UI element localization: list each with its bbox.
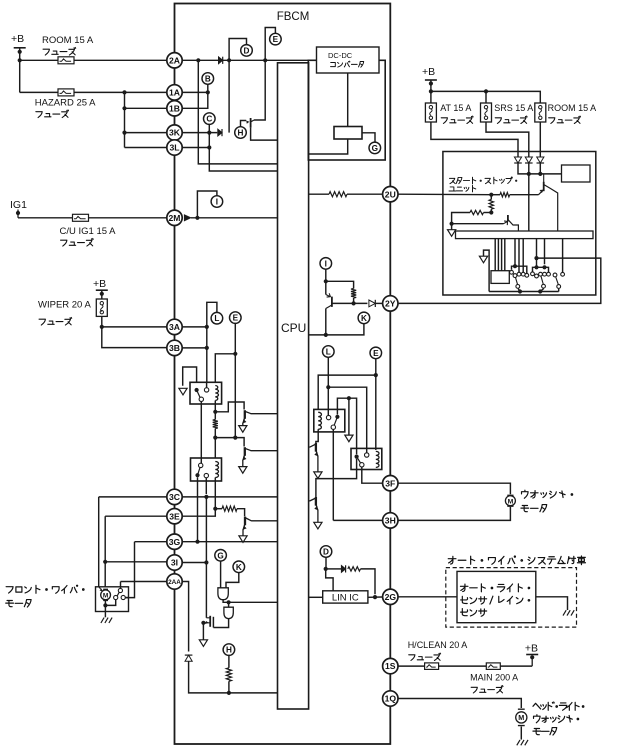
resistor R3 — [226, 668, 231, 682]
wire DC-DC to coil — [347, 73, 349, 127]
wire C rail down to CPU — [209, 133, 277, 171]
wire diode2 rail to bar — [528, 174, 530, 231]
wire to ground tri — [451, 224, 453, 230]
wire AT fuse to diode1 — [431, 122, 518, 157]
wire 2U into unit — [398, 193, 491, 196]
junction E branch — [374, 373, 378, 377]
wire relay1 common to ground hook — [183, 367, 197, 386]
wire to relay1 coil — [215, 354, 235, 383]
wire 3E inner — [182, 509, 215, 517]
svg-text:1A: 1A — [169, 88, 180, 98]
resistor R5 — [351, 289, 356, 299]
wire motor ground — [104, 605, 106, 617]
wire 3G left to motor switch — [135, 541, 167, 543]
wire R4 to 2U — [347, 193, 383, 195]
connector pin 1S — [383, 658, 398, 673]
wire source to ground — [202, 623, 204, 640]
svg-text:3F: 3F — [385, 478, 395, 488]
IG1 supply — [10, 199, 27, 218]
wire relay1 NC to relay2 — [200, 402, 202, 464]
label fuse katakana SRS — [495, 116, 527, 123]
svg-text:3E: 3E — [169, 511, 180, 521]
label fuse (katakana) HAZARD — [36, 110, 69, 118]
wire hook to E — [265, 28, 275, 61]
relay box (start-stop unit) — [562, 165, 591, 182]
wire E to coil A — [318, 375, 376, 409]
svg-text:+B: +B — [422, 66, 435, 78]
svg-text:3A: 3A — [169, 322, 180, 332]
wire Q1 emitter to CPU — [251, 128, 278, 141]
wire arm3 to rail — [558, 289, 560, 292]
switch cluster S2 contacts — [510, 270, 529, 277]
ground (Q2 emitter) — [239, 426, 247, 433]
connector pin 3A — [167, 319, 182, 334]
wire R3 to bottom bus — [228, 681, 230, 693]
+B supply (right fuses) — [422, 66, 437, 86]
transistor Q8 (unit) — [504, 215, 519, 231]
wire G to buffer1 — [220, 561, 222, 588]
transistor Q3 (relay2 driver) — [243, 447, 251, 466]
svg-text:1S: 1S — [385, 661, 396, 671]
svg-text:DC-DC: DC-DC — [328, 51, 353, 60]
junction 2Y tap — [534, 256, 538, 260]
junction bracket s2a — [534, 265, 538, 269]
wire bar to connector box 2 — [497, 239, 499, 271]
svg-text:1B: 1B — [169, 103, 180, 113]
wire RY2 pivot to 3G — [197, 477, 199, 541]
wire 3E/3I to motor — [104, 562, 106, 587]
relay RY1 contacts — [195, 388, 209, 402]
junction base node Q8 — [450, 222, 454, 226]
wire arm to rail — [518, 289, 520, 292]
svg-text:2G: 2G — [385, 592, 397, 602]
svg-text:K: K — [236, 563, 242, 572]
ground (unit) — [448, 230, 456, 237]
connector pin 3H — [383, 513, 398, 528]
wire 2AA rail to bottom bus — [189, 661, 278, 693]
relay RYB (washer) — [351, 448, 382, 469]
wire +B down to 1A row — [19, 48, 21, 93]
connector pin 1B — [167, 101, 182, 116]
junction I node — [324, 279, 328, 283]
motor M1 (front wiper) — [99, 587, 111, 601]
connector pin 1Q — [383, 691, 398, 706]
svg-text:3L: 3L — [169, 143, 179, 153]
label auto wiper system — [448, 556, 585, 565]
relay coil box (DC-DC) — [334, 127, 362, 140]
junction 2U/R7 — [489, 193, 493, 197]
svg-text:H: H — [226, 646, 232, 655]
wire E down to coil node — [234, 323, 236, 353]
svg-text:D: D — [244, 46, 250, 55]
wire bar drop s1-3 — [522, 239, 524, 272]
FBCM module outline — [175, 4, 391, 745]
wire I down — [325, 269, 327, 294]
ground (QA emitter) — [314, 472, 322, 479]
svg-text:2Y: 2Y — [385, 299, 396, 309]
node B — [202, 73, 214, 85]
wire D down — [325, 557, 327, 569]
wire bar drop s2b — [544, 239, 546, 265]
CPU block — [278, 63, 309, 709]
arrow on 2M line — [184, 215, 191, 221]
switch S3 arm — [541, 276, 543, 284]
wire 3I left — [105, 561, 167, 563]
wire E down to coil B — [375, 359, 377, 450]
junction C/3K — [207, 131, 211, 135]
label sensor line1 — [460, 584, 529, 592]
wire arm2 to rail — [540, 288, 544, 291]
sensor box — [457, 571, 536, 622]
ground (QB emitter) — [314, 522, 322, 529]
wire sensor ground — [536, 597, 568, 610]
junction SRS branch — [484, 89, 488, 93]
wire E rail down — [234, 354, 236, 438]
svg-text:H: H — [238, 129, 244, 138]
relay RYA coil — [318, 412, 321, 429]
wire +B down — [430, 80, 432, 103]
wire D to diode — [326, 568, 342, 570]
label sensor line3 — [461, 609, 487, 617]
wire 3I inner — [182, 562, 206, 564]
transistor QA (washer driver 1) — [310, 443, 318, 472]
node D (LIN) — [320, 546, 332, 558]
wire 2A to DC-DC converter — [182, 59, 316, 61]
svg-text:3K: 3K — [169, 128, 181, 138]
diode D2 (2AA rail) — [185, 655, 193, 661]
svg-text:IG1: IG1 — [10, 199, 27, 211]
label hl washer line2 — [534, 715, 579, 723]
wire 2M to CPU — [191, 217, 278, 219]
node E (washer) — [370, 347, 382, 359]
fuse ROOM 15 A — [58, 57, 74, 64]
buffer U2 (gate symbol) — [218, 588, 228, 600]
wire 1B riser — [182, 92, 208, 108]
wire CPU to 2U — [309, 193, 329, 195]
wire QA collector to CPU — [309, 446, 310, 448]
label fuse katakana MAIN — [471, 686, 503, 693]
wire B to 1A line — [207, 84, 209, 92]
wire ground hook (unit) — [484, 250, 490, 291]
junction 3L/C rail — [207, 145, 211, 149]
svg-text:+B: +B — [525, 643, 538, 655]
resistor R2 — [222, 506, 237, 511]
junction 1A branch — [122, 90, 126, 94]
svg-text:C: C — [206, 115, 212, 124]
wire park contact stub — [125, 597, 128, 599]
junction Q6/K line — [324, 333, 328, 337]
connector pin 2A — [167, 53, 182, 68]
svg-text:3G: 3G — [169, 537, 181, 547]
relay RY1 (wiper hi/lo) — [190, 382, 222, 404]
connector pin 3G — [167, 534, 182, 549]
wire hook to I — [197, 191, 217, 218]
label fuse katakana H/CLEAN — [409, 653, 441, 660]
relay RY2 contacts — [195, 463, 208, 478]
junction D node — [324, 567, 328, 571]
wire 2Y to unit — [399, 258, 601, 303]
wire +B branch right — [431, 91, 540, 103]
svg-text:L: L — [214, 314, 219, 323]
junction +B / 2A line — [18, 58, 22, 62]
wire 3C left to motor — [99, 496, 167, 498]
svg-text:3I: 3I — [171, 558, 178, 568]
ground (Q3 emitter) — [239, 467, 247, 474]
wire 1A feed line — [20, 91, 167, 93]
wire K to buffer1 — [226, 573, 239, 588]
wire 3G switch drop — [125, 542, 134, 598]
junction R3/bus — [227, 691, 231, 695]
svg-text:3B: 3B — [169, 343, 180, 353]
wire to ground — [348, 398, 350, 435]
node I (2Y region) — [320, 258, 332, 270]
connector pin 1A — [167, 85, 182, 100]
node K (2Y region) — [358, 312, 370, 324]
node H (bottom) — [223, 644, 235, 656]
wire diode2 to bus — [528, 163, 530, 174]
wire coil to G hook — [362, 133, 375, 142]
junction 2M/I — [195, 216, 199, 220]
fuse WIPER 20 A — [96, 299, 107, 316]
wire to Q8 — [452, 223, 504, 225]
transistor Q1 (top, fed from 2A) — [246, 118, 254, 128]
junction E/coil1 — [233, 352, 237, 356]
svg-text:G: G — [372, 144, 378, 153]
wire LIN IC to 2G — [368, 596, 383, 598]
svg-text:H/CLEAN 20 A: H/CLEAN 20 A — [408, 640, 468, 650]
wire 1Q to hl washer motor — [398, 699, 521, 709]
wire C to 3K line — [208, 124, 210, 132]
junction bus/diode3 — [538, 172, 542, 176]
wire Q6 collector down — [325, 309, 327, 335]
wire Q4 collector to CPU — [251, 520, 277, 522]
wire diode to 2Y — [376, 302, 383, 304]
connector pin 3K — [167, 125, 182, 140]
wire commons rail — [337, 398, 356, 454]
junction 3B node — [205, 346, 209, 350]
label fuse (katakana) WIPER — [39, 317, 72, 325]
connector pin 2G — [383, 589, 398, 604]
label start-stop unit line1 — [449, 177, 516, 184]
wire diode bus — [518, 163, 562, 174]
wire bracket s1 — [512, 266, 527, 273]
junction 3K branch — [122, 131, 126, 135]
switch S4 arm — [556, 277, 559, 284]
wire unit bottom rail — [489, 291, 559, 293]
junction B/1A — [206, 90, 210, 94]
node L (washer) — [323, 346, 335, 358]
junction node on 2A line (after diode) — [227, 58, 231, 62]
wire R5 to 2Y line — [353, 298, 355, 303]
connector box (unit bottom) — [491, 271, 509, 284]
wire SRS fuse to diode2 — [486, 122, 529, 157]
wire branch to 1B/3K/3L — [124, 92, 126, 147]
wire down to 3B — [102, 327, 167, 348]
junction rail s2 — [538, 289, 542, 293]
wire RYB NO to 3F — [362, 467, 383, 483]
connector pin 3F — [383, 476, 398, 491]
svg-text:+B: +B — [93, 278, 106, 290]
label converter (katakana) — [331, 61, 364, 67]
svg-text:1Q: 1Q — [385, 694, 397, 704]
relay RYA (washer) — [314, 409, 345, 432]
label washer motor line1 — [522, 490, 573, 498]
fuse AT 15 A — [425, 103, 436, 122]
svg-text:2M: 2M — [169, 213, 181, 223]
node I (2M) — [211, 196, 223, 208]
wire coil2 bottom to node — [214, 478, 216, 509]
wire SRS drop — [485, 91, 487, 103]
junction 3I rail — [204, 560, 208, 564]
wire D node to LIN IC — [326, 569, 333, 591]
svg-text:I: I — [216, 198, 218, 207]
auto light/rain sensor dashed box — [446, 568, 577, 628]
relay RYB contacts — [355, 453, 369, 467]
wire Q3 collector to CPU — [251, 450, 278, 452]
wire fuse to 3A — [101, 316, 103, 327]
wire base jog Q2 — [215, 402, 244, 412]
wire hl washer to ground — [520, 727, 522, 740]
fuse C/U IG1 15 A — [73, 214, 89, 221]
svg-text:E: E — [373, 349, 379, 358]
svg-text:FBCM: FBCM — [277, 11, 310, 23]
wire 3F to washer motor — [398, 483, 510, 494]
junction commons/ground — [347, 396, 351, 400]
junction bracket s1 — [513, 264, 517, 268]
diode D5 (AT) — [514, 157, 522, 163]
svg-text:G: G — [217, 551, 223, 560]
wire bar drop s1-1 — [514, 239, 516, 267]
resistor R9 (unit) — [470, 210, 484, 214]
wire buffer2 to MOSFET gate — [213, 619, 228, 628]
wire R9 to corner — [452, 213, 470, 224]
diode D7 (ROOM) — [537, 157, 545, 163]
wire to 3L — [125, 147, 167, 149]
node E (wiper) — [230, 312, 242, 324]
svg-text:MAIN 200 A: MAIN 200 A — [470, 673, 518, 683]
junction bracket s2b — [542, 265, 546, 269]
wire bar to connector box 1 — [494, 239, 496, 271]
svg-text:HAZARD 25 A: HAZARD 25 A — [35, 98, 96, 109]
relay RYA contacts — [326, 415, 339, 430]
svg-text:+B: +B — [11, 33, 24, 45]
resistor R7 (unit) — [489, 200, 493, 210]
DC-DC converter box — [317, 47, 380, 73]
wire RYB common down — [316, 459, 357, 498]
wire node to R2 — [215, 508, 222, 510]
svg-text:3C: 3C — [169, 492, 180, 502]
wire bracket s2 — [533, 267, 549, 272]
diode D3 (2Y) — [369, 300, 375, 307]
wire H to transistor base — [241, 121, 247, 127]
junction motor common — [103, 603, 107, 607]
wire 3E motor drop — [104, 516, 106, 562]
svg-text:D: D — [323, 548, 329, 557]
diode D6 (SRS) — [525, 157, 533, 163]
resistor R1 — [213, 420, 218, 429]
svg-text:2AA: 2AA — [168, 579, 181, 586]
wire Q2 collector to CPU — [251, 413, 278, 415]
relay RYB coil — [376, 451, 379, 467]
svg-text:M: M — [518, 713, 524, 722]
relay RY2 coil — [215, 462, 218, 478]
svg-text:CPU: CPU — [281, 321, 306, 335]
junction L branch — [326, 385, 330, 389]
wire to R5 — [326, 281, 354, 288]
junction 3C rail — [204, 495, 208, 499]
wire hook to L — [207, 302, 217, 327]
wire RY2 NO to 3C rail — [205, 478, 207, 494]
label washer motor line2 — [521, 505, 547, 513]
junction wiper/3A — [100, 325, 104, 329]
transistor Q6 (2Y, pnp) — [326, 293, 332, 308]
wire K to CPU — [309, 324, 364, 335]
wire coil to CPU edge — [308, 139, 347, 154]
transistor Q7 (unit) — [539, 175, 558, 232]
ground (Q4 emitter) — [239, 536, 247, 543]
wire R1 to node — [214, 429, 216, 438]
wire 2AA left — [121, 581, 167, 583]
connector pin 2AA — [167, 574, 182, 589]
wire 3A inner to L hook — [182, 326, 207, 328]
label front wiper motor line1 — [6, 585, 84, 593]
junction R7/R9 — [489, 210, 493, 214]
fuse SRS 15 A — [481, 103, 492, 122]
connector pin 3I — [167, 555, 182, 570]
wire L branch to RYB contact — [328, 387, 366, 453]
transistor Q2 (relay1 driver) — [243, 410, 251, 425]
junction R1/E-rail — [213, 436, 217, 440]
wire bar to connector box 3 — [501, 239, 503, 271]
transistor Q4 (3E driver) — [243, 517, 251, 536]
svg-text:WIPER 20 A: WIPER 20 A — [38, 300, 91, 311]
svg-text:3H: 3H — [385, 516, 396, 526]
wire node to Q3 base — [215, 438, 244, 447]
junction node on 2A line (E/D rail) — [263, 58, 267, 62]
wire R8 left stub — [491, 194, 500, 196]
wire coilA to QA base — [316, 429, 318, 443]
connector pin 3E — [167, 509, 182, 524]
junction MOSFET source — [201, 621, 205, 625]
wire B+ rail down to CPU — [198, 60, 277, 164]
wire 3K diode up to 2A node — [228, 60, 230, 132]
wire QB collector to CPU — [309, 500, 310, 502]
junction LIN/2G — [373, 595, 377, 599]
label fuse katakana AT — [441, 116, 473, 123]
resistor R8 (unit, 2U line) — [500, 193, 510, 197]
wire motor to common dot — [104, 601, 106, 606]
wire 3E left — [105, 515, 167, 517]
svg-text:SRS 15 A: SRS 15 A — [494, 103, 533, 113]
junction 3A node — [205, 325, 209, 329]
wire common to switch — [105, 600, 115, 606]
wire 2A feed line — [20, 59, 167, 61]
fuse ROOM 15 A (right) — [535, 103, 546, 122]
wire R7 bottom — [490, 209, 492, 212]
wire R2 to Q4 base — [237, 509, 245, 517]
wire R7 top — [490, 195, 492, 200]
wire ROOM fuse to diode3 — [539, 122, 541, 157]
wire 1S to +B — [398, 665, 532, 667]
wire 3L line inner — [182, 147, 209, 149]
wire IG1 to 2M — [18, 217, 167, 219]
junction 1B branch — [122, 106, 126, 110]
label hl washer line3 — [533, 728, 557, 736]
junction 3E/3I drop — [103, 560, 107, 564]
ground (MOSFET source) — [199, 640, 207, 647]
svg-text:M: M — [103, 593, 108, 600]
diode D4 (LIN) — [341, 565, 345, 572]
